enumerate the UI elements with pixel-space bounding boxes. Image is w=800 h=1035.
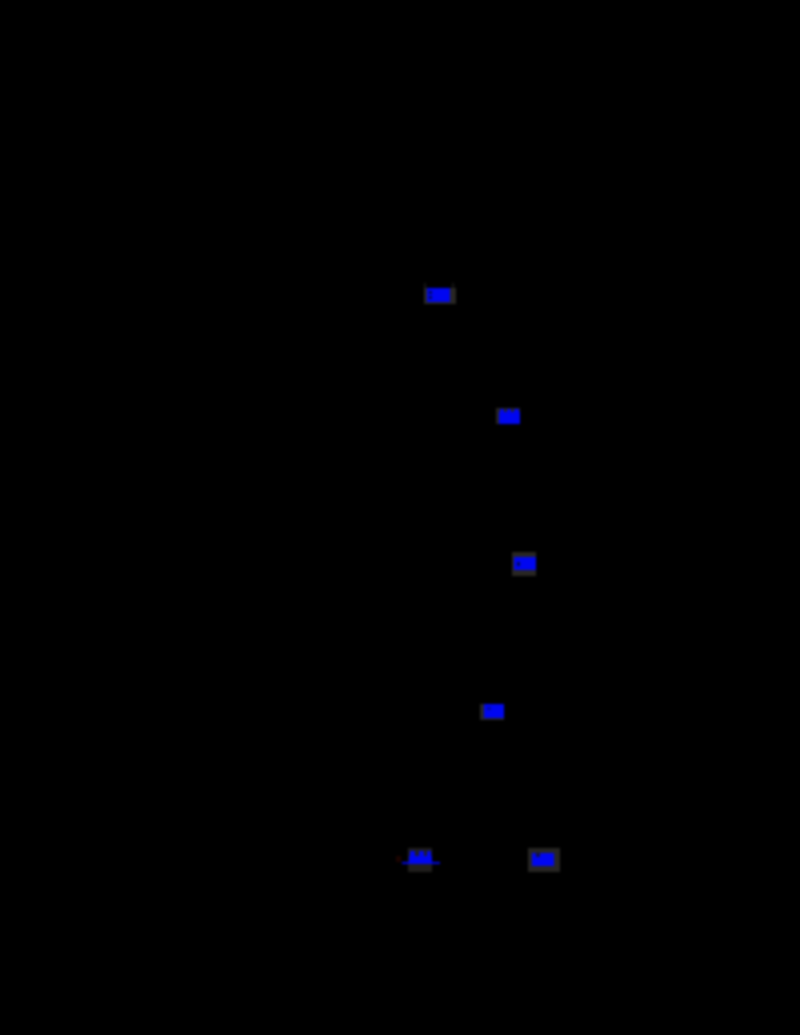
- faint red speck left of underline: [396, 856, 401, 862]
- image placeholder box 1: [424, 288, 456, 304]
- link underline 5: [402, 862, 440, 864]
- blue thumbnail 1: [427, 288, 450, 302]
- blue thumbnail 4: [484, 704, 504, 718]
- dark dot in thumbnail 3: [517, 562, 520, 566]
- image placeholder box 6: [528, 848, 560, 872]
- dark dots in thumbnail 1: [429, 291, 432, 294]
- blue thumbnail 6: [532, 853, 554, 866]
- dark notch in thumbnail 6: [536, 853, 540, 857]
- image placeholder box 2: [496, 408, 520, 424]
- image placeholder strip 4: [480, 704, 504, 720]
- image placeholder box 3: [512, 552, 536, 576]
- blue thumbnail 2 (notched top): [499, 412, 520, 424]
- image placeholder box 5: [408, 848, 432, 872]
- border tick above box 1 left: [424, 283, 426, 288]
- dark mark in thumbnail 4: [487, 707, 491, 710]
- border tick above box 1 right: [452, 283, 454, 288]
- blue alt text glyphs 5: [409, 856, 432, 862]
- blue thumbnail 3: [514, 557, 536, 570]
